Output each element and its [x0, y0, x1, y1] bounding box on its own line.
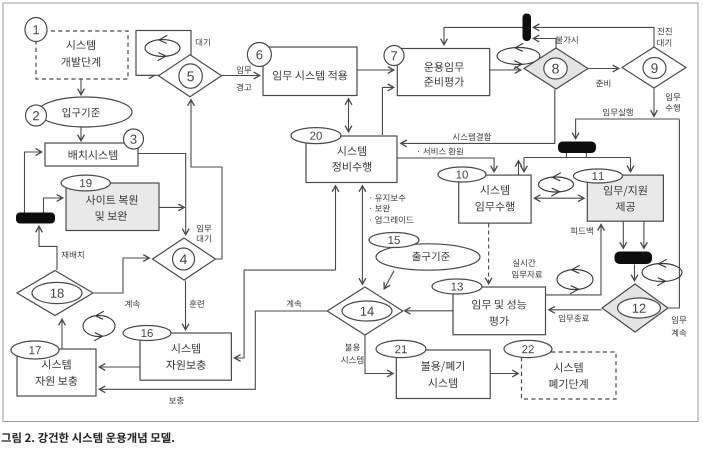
label 계속 (14-17) [287, 300, 302, 308]
label 재배치 [62, 251, 84, 259]
label 임무 수행 [666, 93, 681, 101]
wire diamond9 top to topbar [534, 27, 655, 46]
wire diamond8 to box20 (시스템결함) [401, 90, 555, 144]
label 대기 (wait) [196, 39, 210, 47]
label 시스템 임무수행 [480, 185, 509, 195]
label 훈련 [190, 300, 204, 308]
node marker 14 [342, 301, 392, 321]
loop icon near 18 [83, 311, 115, 340]
label 불용 시스템 (14-21) [345, 344, 360, 352]
wire diamond12 to box13 (임무종료) [549, 309, 602, 311]
wire diamond8 to diamond9 (준비) [589, 68, 619, 70]
wire box19 to flowline [160, 206, 185, 208]
loop icon between 10 and 11 [539, 173, 574, 196]
node marker 6 [247, 43, 271, 67]
wire fork to box10 top [523, 158, 525, 172]
node 11 gray box 임무/지원 제공 [587, 175, 663, 221]
wire ellipse2 to box3 [80, 128, 82, 141]
node marker 11 [574, 169, 623, 183]
loop icon left of diamond12 [557, 265, 593, 293]
wire diamond4 to box16 (훈련) [185, 281, 187, 330]
node marker 9 [643, 58, 666, 79]
label 계속 (18-4) [125, 300, 140, 308]
node marker 8 [544, 58, 567, 79]
wire box10 to box13 dashed (실시간 임무자료) [488, 224, 490, 284]
exit criteria ellipse 출구기준 [376, 244, 480, 270]
wire barD to diamond12 [634, 265, 636, 281]
entry criteria ellipse 입구기준 [38, 97, 132, 127]
decision diamond 9 [622, 47, 686, 88]
node 6 box 임무 시스템 적용 [263, 47, 357, 96]
label 임무 대기 (diamond4) [197, 225, 212, 233]
wire node1 box to ellipse2 [80, 80, 82, 95]
wire diamond14 to box17 (계속 보충) [100, 311, 328, 389]
label 유지보수 보완 업그레이드 [370, 194, 406, 202]
node marker 1 [25, 18, 47, 42]
wire box17 to diamond18 [61, 320, 63, 349]
node 7 box 운용임무 준비평가 [397, 49, 489, 96]
decision diamond 18 [17, 271, 93, 316]
node marker 7 [384, 46, 404, 66]
loop icon near diamond8 [497, 43, 540, 68]
node 17 box 시스템 자원 보충 [17, 349, 96, 396]
node 1 dashed box 시스템 개발단계 [36, 31, 128, 79]
node 22 dashed box 시스템 폐기단계 [522, 352, 617, 399]
decision diamond 12 gray [602, 284, 668, 332]
node 10 box 시스템 임무수행 [459, 175, 531, 223]
label 입구기준 [62, 108, 99, 118]
label 전진 대기 [657, 28, 671, 36]
label 보충 [169, 397, 184, 405]
node marker 5 [179, 64, 202, 88]
node marker 21 [376, 340, 426, 357]
wire diamond14 to box21 (불용 시스템) [365, 336, 393, 374]
wire box20 to box10 (서비스 환원) [398, 158, 495, 172]
label 시스템 자원 보충 (17) [42, 359, 71, 369]
wire box20-diamond14 bidirectional [361, 186, 363, 284]
sync bar B vertical [523, 14, 532, 42]
node marker 12 [618, 298, 661, 318]
label 운용임무 준비평가 [424, 62, 463, 72]
label 임무 시스템 적용 [273, 70, 347, 80]
wire diamond8 top to topbar [534, 39, 557, 48]
label 임무/지원 제공 [604, 185, 647, 196]
wire topbar to box7 top feedback [444, 27, 523, 44]
wire fork to box11 top [630, 158, 632, 172]
wire loopbox to diamond5 [138, 74, 155, 76]
label 시스템 개발단계 [66, 40, 95, 50]
node marker 3 [124, 129, 144, 149]
sync bar D [615, 252, 653, 265]
label 출구기준 [412, 252, 450, 262]
wire continue path to box16 [235, 270, 336, 358]
node 21 box 불용/폐기 시스템 [396, 350, 490, 399]
node marker 19 [61, 175, 110, 191]
wire 출구기준 to diamond14 [384, 271, 394, 289]
wire box20 to box7 left [382, 87, 393, 135]
loop icon in wait box [145, 35, 180, 60]
decision diamond 5 [159, 55, 222, 97]
node 19 gray box 사이트 복원 및 보완 [66, 183, 159, 231]
wire box6-box20 bidirectional [348, 99, 350, 132]
label 임무 경고 [237, 66, 252, 74]
wire box7 to diamond8 [490, 69, 521, 71]
node marker 17 [11, 341, 59, 359]
label 임무 및 성능 평가 [472, 299, 526, 309]
label 불용/폐기 시스템 [421, 361, 464, 372]
loop icon right of diamond12 [642, 259, 682, 285]
label 배치시스템 [69, 150, 118, 160]
wire diamond18 to barA (재배치) [39, 227, 57, 271]
node marker 15 [369, 233, 419, 248]
label 불가시 [556, 36, 578, 44]
wire diamond9 down merge (임무 수행) [653, 89, 655, 117]
node marker 20 [291, 128, 341, 144]
wire box11 to barD right stub [643, 222, 645, 249]
wire box10 up to fork [518, 161, 520, 175]
wire barA to box19 [44, 198, 63, 213]
label 임무종료 [559, 314, 589, 322]
label 임무실행 [603, 108, 633, 116]
wire box10-box11 bidirectional [535, 197, 584, 199]
label 시스템 정비수행 [337, 146, 366, 156]
node 3 box 배치시스템 [45, 143, 138, 166]
label 서비스 환원 [418, 147, 463, 155]
caption 그림 2 강건한 시스템 운용개념 모델 [2, 432, 175, 443]
wire box21 to box22 [491, 373, 519, 375]
node marker 13 [432, 279, 482, 294]
wire box13 to box11 (피드백) [546, 225, 601, 295]
label 실시간 임무자료 [513, 259, 536, 267]
label 시스템 폐기단계 [554, 362, 583, 372]
wait loop box [136, 31, 191, 76]
node 20 box 시스템 정비수행 [306, 136, 397, 183]
wire diamond18 to diamond4 (계속) [94, 258, 150, 293]
decision diamond 4 [153, 238, 216, 280]
wire to box20 bottom up [335, 186, 337, 270]
wire box16 to box17 [100, 366, 140, 368]
node marker 18 [32, 282, 82, 303]
wire box6 to box7 [357, 69, 394, 71]
node marker 10 [438, 167, 486, 182]
label 임무 계속 [672, 316, 687, 324]
label 사이트 복원 및 보완 [86, 195, 137, 205]
sync bar A [16, 213, 55, 224]
node marker 22 [504, 340, 552, 357]
decision diamond 14 [327, 287, 403, 335]
wire barC to fork stubs [524, 153, 631, 158]
label 준비 [596, 80, 610, 88]
wire barA to box3 [25, 152, 42, 213]
label 피드백 [571, 227, 593, 235]
wire diamond12 return (임무 계속) [669, 120, 680, 309]
wire box13 to diamond14 [405, 310, 453, 312]
decision diamond 8 gray [524, 48, 588, 89]
wire 임무실행 to barC [576, 119, 680, 139]
label 시스템 자원보충 (16) [171, 343, 200, 353]
node marker 16 [123, 326, 171, 341]
wire diamond4 to diamond5 [191, 100, 222, 259]
label 시스템결함 [453, 133, 492, 141]
wire box3 to diamond4 (임무 대기) [139, 154, 186, 235]
node marker 4 [173, 248, 195, 270]
wire diamond5 to box6 (임무 경고) [222, 75, 260, 77]
sync bar C [558, 142, 596, 154]
wire box11 to barD left stub [622, 222, 624, 249]
node marker 2 [26, 105, 47, 126]
node 13 box 임무 및 성능 평가 [453, 287, 546, 335]
node 16 box 시스템 자원보충 [140, 333, 231, 380]
